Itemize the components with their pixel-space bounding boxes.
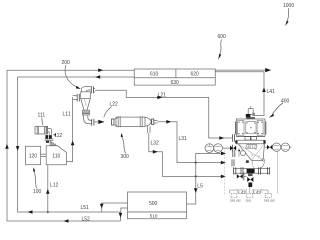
leader 200 <box>65 65 75 87</box>
svg-text:L43: L43 <box>253 190 261 195</box>
svg-text:L5: L5 <box>197 184 203 190</box>
svg-text:111: 111 <box>38 112 46 118</box>
mill box 110 <box>46 146 66 165</box>
label L11 <box>63 111 71 117</box>
wire box outlet top (gas out) <box>215 69 268 71</box>
arrow right on L31 into 400 <box>221 161 226 165</box>
cyclone inlet pipe from L11 <box>73 95 78 97</box>
arrow right cyclone discharge to vessel 300 <box>98 120 104 124</box>
right flange disc <box>152 119 154 124</box>
drum body <box>116 117 145 126</box>
vessel 400 upper box <box>235 119 266 137</box>
feeder plate above mill <box>45 138 54 140</box>
label L43 <box>253 190 261 195</box>
wire L32 (drum bottom to vessel 400) <box>149 133 225 177</box>
pump P4 circle <box>281 143 289 151</box>
label 112 <box>54 133 62 139</box>
arrow up on L11 <box>71 141 75 146</box>
wire inner loop (L51) <box>18 77 135 212</box>
svg-text:120: 120 <box>29 154 38 160</box>
flange at 400 inlet L5 branch <box>232 150 234 157</box>
skid boundary dashed line left <box>224 148 226 196</box>
node 600 label <box>218 34 227 40</box>
internal pump circle <box>246 145 257 149</box>
right stub pipe <box>154 120 158 122</box>
wire L51 jog up into box 500 <box>121 208 128 212</box>
bottom valve stack <box>247 174 253 188</box>
svg-text:L21: L21 <box>158 92 167 98</box>
svg-text:L51: L51 <box>81 205 90 211</box>
svg-text:630: 630 <box>171 80 180 86</box>
label L21 <box>158 92 167 98</box>
purge tags text <box>230 198 275 202</box>
svg-text:112: 112 <box>54 133 62 139</box>
bracket ticks for purge labels <box>238 189 262 193</box>
wire L41 (to vessel 400 top valve) <box>215 72 264 116</box>
arrow right on L31 top <box>166 120 171 124</box>
label L12 <box>50 183 59 189</box>
storage box 500 <box>128 192 187 212</box>
motor 111 <box>35 126 48 134</box>
cyclone upper cylinder <box>81 92 91 99</box>
pump P1 circle <box>205 144 214 153</box>
purge lines under vessel 400 <box>230 189 246 191</box>
arrow down on inner left vertical <box>16 146 20 151</box>
wire box500 upper stub to L51 <box>102 203 128 212</box>
purge box center <box>247 193 253 197</box>
svg-text:L11: L11 <box>63 111 71 117</box>
label L32 <box>151 140 160 146</box>
wire pumps to valve <box>222 147 230 149</box>
arrow up on L12 <box>46 189 50 194</box>
label L22 <box>110 102 119 108</box>
cyclone 200 top outlet wire to L21 <box>95 90 232 138</box>
label L5 <box>197 184 203 190</box>
bottom nozzle <box>147 126 149 132</box>
wire branch down to L52 <box>120 212 122 221</box>
cyclone elbow outlet <box>82 87 92 92</box>
node 200 label <box>62 60 71 66</box>
junction L12/L51 <box>46 211 49 214</box>
side flange left <box>234 122 236 135</box>
node 300 label <box>121 154 130 160</box>
heater box 610/620/630 <box>134 69 215 85</box>
right end cap <box>145 117 151 126</box>
label L51 <box>81 205 90 211</box>
arrow left on inner top line <box>95 75 100 79</box>
cyclone bottom elbow to right <box>84 117 92 124</box>
vessel 400 tray band <box>235 137 265 144</box>
svg-text:GN2 LN2: GN2 LN2 <box>264 198 275 202</box>
arrow right on L32 <box>153 150 158 154</box>
svg-text:L32: L32 <box>151 140 160 146</box>
side flange right <box>265 122 267 135</box>
junction L32 crossing <box>194 176 197 178</box>
svg-text:L12: L12 <box>50 183 59 189</box>
flange at 400 inlet L31 <box>231 159 233 166</box>
feeder link 120-110 <box>41 153 47 155</box>
purge box left <box>231 193 237 197</box>
svg-text:GN2 LN2: GN2 LN2 <box>230 198 241 202</box>
arrow up on L41 <box>262 87 266 92</box>
svg-text:L31: L31 <box>179 136 188 142</box>
label L31 <box>179 136 188 142</box>
svg-text:GN2: GN2 <box>246 198 252 202</box>
cyclone 200 body group <box>73 86 104 125</box>
node 1000 label <box>283 3 294 9</box>
wire L5 manifold vertical <box>187 153 223 204</box>
cyclone cone <box>81 99 91 111</box>
coupling 112 black blocks <box>45 135 48 139</box>
pump P2 circle <box>214 144 223 153</box>
svg-text:500: 500 <box>149 201 158 207</box>
left flange disc <box>112 119 114 125</box>
valve at 400 inlet L32 <box>237 174 240 178</box>
svg-text:610: 610 <box>150 71 159 77</box>
wire L12 (mill discharge down to L51) <box>47 165 49 212</box>
arrow down on L5 <box>194 188 198 193</box>
leader 100 <box>34 171 37 189</box>
base band 510 <box>128 212 187 219</box>
arrow right on L32 into 400 <box>221 175 226 179</box>
arrow right L5 branch into 400 <box>221 152 226 156</box>
center internal square <box>246 122 256 134</box>
cyclone dip leg <box>83 115 85 119</box>
left internal panel <box>238 121 244 136</box>
node 100 label <box>33 189 42 195</box>
wire outer loop left (L52 return to furnace) <box>7 70 134 221</box>
arrow left for 112 <box>53 134 56 136</box>
arrow left on L52 bottom line <box>64 219 69 223</box>
label L42 <box>238 190 246 195</box>
arrow down on stub <box>100 204 104 209</box>
svg-text:110: 110 <box>52 154 60 160</box>
arrow right on outer top line <box>98 68 103 72</box>
junction L31 crossing <box>194 162 197 164</box>
vessel 400 bottom pipe <box>234 167 271 174</box>
left end cap <box>114 117 118 126</box>
leader 111 <box>41 118 44 126</box>
small internal dots <box>249 147 265 162</box>
arrow up on outer left vertical <box>5 144 9 149</box>
purge box right <box>265 193 271 197</box>
node 400 label <box>281 99 290 105</box>
valve (black bowtie) right <box>267 145 270 150</box>
pump P3 circle <box>272 143 280 151</box>
valve (black bowtie) at 400 left <box>230 146 233 151</box>
svg-text:300: 300 <box>121 154 130 160</box>
leader 400 <box>273 103 284 114</box>
wire L11 riser (mill 110 to cyclone) <box>67 97 73 162</box>
arrow right on L21 into vessel 400 <box>219 136 224 140</box>
rib flange right <box>139 116 141 127</box>
arrow right on L21 horizontal <box>157 96 162 100</box>
svg-text:510: 510 <box>150 214 158 219</box>
wire sample line down from P3 <box>277 151 279 193</box>
vessel 400 right outlet pipe <box>265 146 267 148</box>
svg-text:L42: L42 <box>238 190 246 195</box>
right internal panel <box>257 121 263 136</box>
svg-text:L52: L52 <box>82 217 91 223</box>
flange at vessel 400 inlet L21 <box>232 134 234 142</box>
vessel 400 top valve <box>246 106 255 119</box>
svg-text:L22: L22 <box>110 102 119 108</box>
svg-text:600: 600 <box>218 34 227 40</box>
svg-text:620: 620 <box>191 71 200 77</box>
svg-text:100: 100 <box>33 189 42 195</box>
label L41 <box>267 89 276 95</box>
svg-text:L41: L41 <box>267 89 276 95</box>
rib flange left <box>117 116 119 127</box>
hatched chute wedge <box>50 141 57 146</box>
vessel 400 funnel section <box>238 144 265 169</box>
wire L31 (drum to vessel 400) <box>158 122 225 163</box>
leader L22 <box>104 107 112 118</box>
leader 300 <box>122 137 126 154</box>
cyclone bottom flange stack <box>83 110 90 112</box>
shaft / gearbox 112 <box>48 129 52 135</box>
label L52 <box>82 217 91 223</box>
wire right outlet end <box>290 146 292 148</box>
vessel 300 (dryer drum) <box>112 116 158 133</box>
bolt dots <box>238 122 262 135</box>
hopper box 120 <box>26 146 41 164</box>
arrow down on branch <box>119 213 123 218</box>
leader 600 <box>220 40 222 55</box>
arrow left on L51 line <box>28 210 33 214</box>
node 111 label <box>38 112 46 118</box>
leader 1000 <box>287 8 289 22</box>
